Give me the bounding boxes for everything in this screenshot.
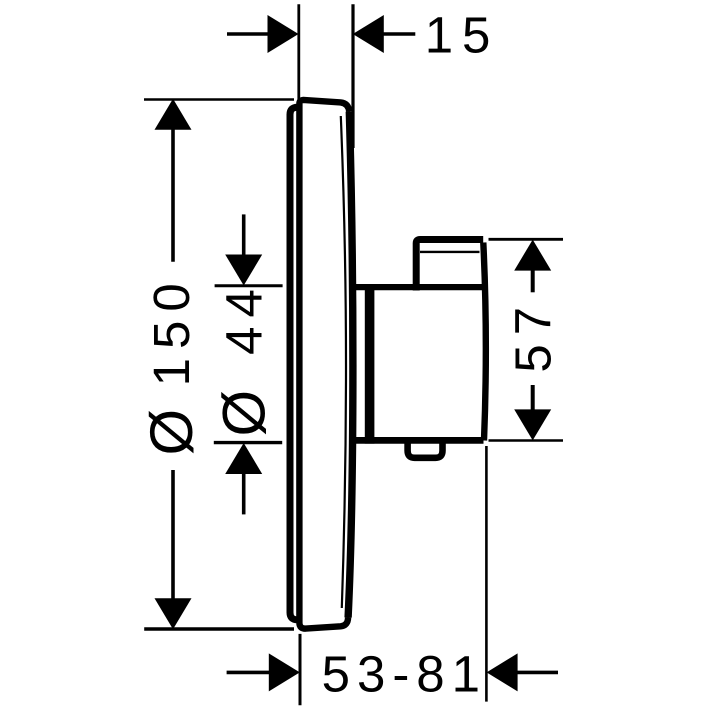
dim 53-81 right tail <box>517 671 558 675</box>
dim 53-81 right arrow <box>487 653 518 691</box>
dim 44 lower arrow <box>225 443 262 474</box>
dim 150 lower tail <box>171 470 175 599</box>
svg-text:Ø150: Ø150 <box>138 274 205 455</box>
dim 44 upper tail <box>242 214 246 256</box>
dim 57 upper tail <box>531 270 535 292</box>
dim 15 left extension line <box>297 4 300 102</box>
svg-text:53-81: 53-81 <box>322 646 487 703</box>
valve body top edge <box>350 284 482 290</box>
svg-text:57: 57 <box>505 298 562 373</box>
dim 15 right arrow <box>353 15 384 53</box>
dim 57 top extension line <box>489 238 564 241</box>
plate back flange (wall side profile) <box>290 107 298 620</box>
dim 150 lower arrow <box>155 598 192 629</box>
svg-text:15: 15 <box>425 7 500 64</box>
dim 150 top extension line <box>144 98 294 101</box>
dim 53-81 left extension line <box>299 634 302 705</box>
valve body bottom edge <box>350 437 484 444</box>
dim 150 upper arrow <box>155 99 192 130</box>
plate front edge <box>348 112 353 618</box>
dim 57 lower tail <box>531 385 535 410</box>
dim 57 bottom extension line <box>489 439 564 442</box>
dim 15 left arrow <box>268 15 299 53</box>
dim 53-81 left arrow <box>269 653 300 691</box>
cartridge cap inner line <box>420 251 480 253</box>
dim 44 top tick <box>215 284 283 287</box>
valve body right edge <box>483 243 486 441</box>
dim 44 lower tail <box>242 474 246 515</box>
dim 44 bottom tick <box>214 441 282 444</box>
dim 44 upper arrow <box>225 255 262 286</box>
dim 57 upper arrow <box>514 240 551 271</box>
dim 53-81 right extension line <box>485 446 488 702</box>
cartridge cap outline <box>416 240 483 291</box>
dim 15 left tail <box>227 32 269 36</box>
dim 57 lower arrow <box>514 409 551 440</box>
dim 150 bottom extension line <box>144 627 294 631</box>
plate front face inner line <box>341 116 346 608</box>
valve body left edge <box>365 284 375 443</box>
plate outline (escutcheon side view) <box>299 100 349 629</box>
dim 150 upper tail <box>171 129 175 262</box>
dim 15 right tail <box>384 32 416 36</box>
dim 53-81 left tail <box>227 671 270 675</box>
bottom clip tab <box>408 441 443 458</box>
dim 15 right extension line <box>351 4 354 148</box>
